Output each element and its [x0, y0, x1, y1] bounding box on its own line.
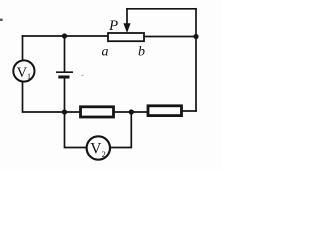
battery cell: short thick negative plate: [58, 76, 69, 79]
wire: middle horizontal from R2 right end to right vertical: [181, 110, 196, 112]
svg-text:a: a: [102, 45, 109, 60]
node: junction dot on right vertical at b-wire: [193, 34, 198, 39]
wire: V2 loop right side (V2 right, then up to junction between R1 and R2): [110, 112, 131, 148]
node: junction dot battery-bottom on middle wire: [62, 109, 67, 114]
wire: V2 loop left side (junction down, then right to voltmeter V2): [65, 112, 87, 148]
svg-text:P: P: [108, 18, 118, 34]
svg-text:1: 1: [27, 72, 31, 81]
wire: left vertical lower (V1 down to bottom-left corner, then right along middle wire): [23, 82, 80, 113]
battery cell: long thin positive plate: [56, 71, 73, 73]
wire: top horizontal (slider to top-right corner): [127, 8, 196, 10]
resistor R2 (bottom right): [148, 106, 182, 116]
wire: potentiometer b-terminal to right vertical: [144, 36, 196, 38]
potentiometer P body: [108, 33, 144, 41]
voltmeter V1 circle: [13, 60, 34, 81]
scan speck left edge: [0, 19, 3, 21]
svg-text:V: V: [90, 140, 102, 157]
resistor R1 (bottom middle-left): [81, 107, 114, 117]
wire: top-left horizontal from left corner to potentiometer left terminal: [23, 35, 109, 37]
wire: battery branch upper (top junction down to battery top plate): [64, 36, 66, 72]
svg-text:b: b: [138, 45, 145, 60]
svg-text:2: 2: [102, 149, 106, 159]
svg-text:V: V: [17, 65, 28, 81]
voltmeter V2 circle: [87, 136, 110, 159]
wire: right vertical (top-right corner down to bottom-right corner): [195, 9, 197, 111]
potentiometer slider arrowhead: [123, 23, 130, 33]
node: junction dot battery-top on top wire: [62, 33, 67, 38]
wire: middle horizontal between resistor R1 and resistor R2: [113, 111, 147, 113]
node: junction dot between R1 and R2: [129, 109, 134, 114]
wire: left vertical upper (corner down to voltmeter V1): [22, 36, 24, 61]
scan speck right of battery: [82, 75, 84, 76]
wire: slider vertical shaft from top wire down toward arrowhead: [126, 9, 128, 25]
wire: battery branch lower (battery bottom plate down to middle wire): [64, 78, 66, 112]
